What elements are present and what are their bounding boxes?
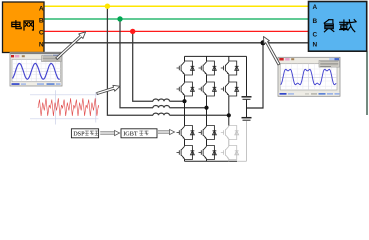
svg-text:DSP: DSP bbox=[73, 131, 85, 138]
svg-text:N: N bbox=[313, 42, 318, 49]
svg-text:B: B bbox=[39, 18, 44, 25]
svg-text:C: C bbox=[313, 32, 318, 39]
svg-text:IGBT: IGBT bbox=[123, 131, 138, 138]
svg-text:C: C bbox=[39, 29, 44, 36]
svg-text:A: A bbox=[39, 6, 44, 13]
svg-text:B: B bbox=[313, 18, 318, 25]
svg-text:N: N bbox=[39, 42, 44, 49]
svg-text:A: A bbox=[313, 4, 318, 11]
